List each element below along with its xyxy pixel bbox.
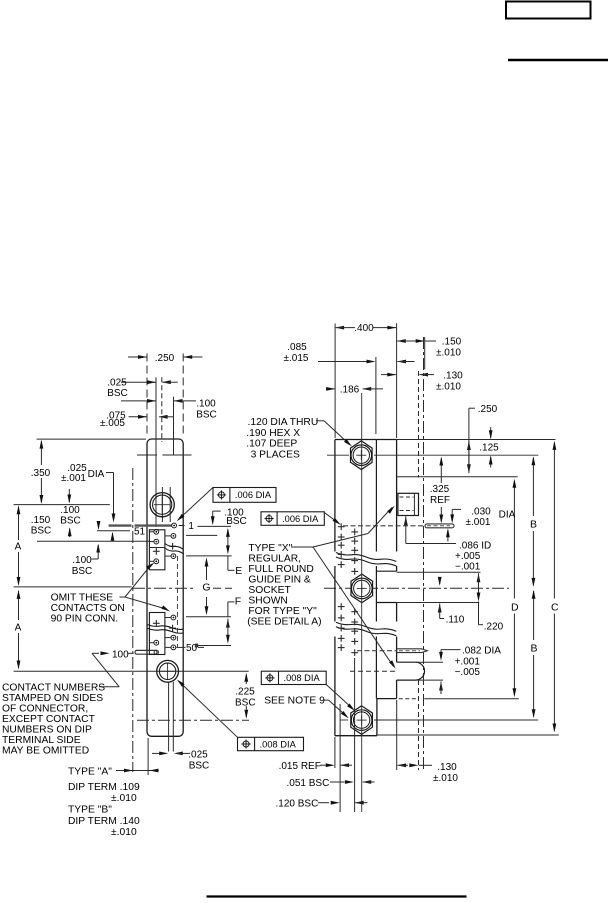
row51 extension line xyxy=(97,530,130,532)
svg-text:STAMPED ON SIDES: STAMPED ON SIDES xyxy=(2,693,103,704)
connector mid centerline (dash-dot) xyxy=(133,587,509,589)
svg-text:G: G xyxy=(202,582,210,594)
LV top surface extension line xyxy=(37,438,146,440)
LV inner vertical line x173.5 top xyxy=(173,397,175,455)
RV contacts lower col1 xyxy=(338,603,345,651)
svg-text:NUMBERS ON DIP: NUMBERS ON DIP xyxy=(2,725,92,736)
svg-text:.100: .100 xyxy=(60,505,80,516)
rowF line y645.5 with pin blob xyxy=(195,644,231,648)
LV inner vertical line x156 xyxy=(155,377,157,527)
RV hex1 centerline xyxy=(327,454,538,456)
dim .130 +/-.010 bottom xyxy=(397,700,459,784)
svg-text:A: A xyxy=(15,542,22,553)
LV upper wavy break xyxy=(165,544,184,555)
FCF .008 upper leader to hex3 xyxy=(326,685,355,711)
FCF .006 right leader xyxy=(324,513,341,525)
svg-text:.150: .150 xyxy=(31,515,51,526)
RV face extension up xyxy=(396,323,398,438)
TYPE X leader to socket detail xyxy=(291,506,395,547)
svg-text:TYPE "X": TYPE "X" xyxy=(248,543,292,554)
label 50 with dashes xyxy=(177,643,205,654)
top rule line xyxy=(508,59,608,62)
RV socket bottom arrow (up) xyxy=(439,682,443,695)
TYPE A leader with arrows xyxy=(116,738,159,775)
svg-text:.400: .400 xyxy=(354,323,374,334)
svg-text:−.005: −.005 xyxy=(455,667,481,678)
svg-text:.150: .150 xyxy=(442,337,462,348)
svg-text:OF CONNECTOR,: OF CONNECTOR, xyxy=(2,704,88,715)
RV contacts upper col2 xyxy=(351,529,358,575)
svg-text:E: E xyxy=(235,565,242,577)
LV long line y671 (socket centerline) xyxy=(14,670,249,672)
RV contacts lower col2 xyxy=(351,608,358,656)
svg-text:BSC: BSC xyxy=(107,388,128,399)
svg-text:+.005: +.005 xyxy=(455,551,481,562)
LV mating face line y455 xyxy=(137,454,192,456)
dim .030 +/-.001 DIA xyxy=(446,507,516,542)
svg-text:±.001: ±.001 xyxy=(61,473,86,484)
RV hex nut 3 xyxy=(351,706,373,735)
svg-text:SHOWN: SHOWN xyxy=(248,596,287,607)
RV hex nut 1 (jack screw) xyxy=(351,441,373,470)
RV socket centerline dashed xyxy=(350,670,397,672)
svg-text:BSC: BSC xyxy=(189,761,210,772)
svg-text:B: B xyxy=(530,519,537,531)
dim C xyxy=(551,441,559,733)
RV row-1 pin hidden line xyxy=(343,525,425,527)
svg-text:DIP TERM .109: DIP TERM .109 xyxy=(68,782,140,793)
svg-text:BSC: BSC xyxy=(235,698,256,709)
hex1 line ext right y455.2 xyxy=(0,0,1,1)
bottom rule line xyxy=(207,895,467,897)
RV hidden line x418.5 xyxy=(418,371,420,770)
LV line y586.9 xyxy=(14,586,132,588)
RV bottom edge xyxy=(335,734,559,737)
dim B lower xyxy=(530,590,537,719)
LV bottom dash-dot line xyxy=(137,719,249,721)
svg-text:TERMINAL SIDE: TERMINAL SIDE xyxy=(2,735,81,746)
svg-text:100: 100 xyxy=(112,649,129,660)
TYPE A/B dip term labels xyxy=(68,767,140,839)
svg-text:.008 DIA: .008 DIA xyxy=(260,739,297,749)
dim .350 xyxy=(31,440,51,504)
RV guide pin slot (pointed) xyxy=(397,649,427,653)
svg-text:REF: REF xyxy=(430,495,450,506)
svg-text:SOCKET: SOCKET xyxy=(248,585,291,596)
svg-text:.051 BSC: .051 BSC xyxy=(287,778,330,789)
svg-text:.225: .225 xyxy=(235,687,255,698)
dim B upper xyxy=(530,456,537,587)
RV row-1 pin slot xyxy=(425,524,454,528)
dim .100 BSC left (rows) xyxy=(60,505,114,541)
dim G xyxy=(201,558,213,616)
dim F xyxy=(226,596,241,644)
RV x375.9 extension up xyxy=(375,357,377,434)
svg-text:−.001: −.001 xyxy=(455,562,481,573)
dim .220 xyxy=(477,573,504,632)
svg-text:.008 DIA: .008 DIA xyxy=(284,673,321,683)
svg-text:.006 DIA: .006 DIA xyxy=(235,490,272,500)
RV contacts upper col1 xyxy=(338,523,345,568)
OMIT leader lines xyxy=(120,563,171,612)
svg-text:.120 BSC: .120 BSC xyxy=(276,798,319,809)
FCF .008 DIA lower xyxy=(238,737,304,750)
dim .086 ID xyxy=(404,516,491,572)
dim .225 BSC xyxy=(235,673,256,719)
svg-text:BSC: BSC xyxy=(31,526,52,537)
dim .015 REF xyxy=(279,761,352,772)
svg-text:EXCEPT CONTACT: EXCEPT CONTACT xyxy=(2,714,96,725)
svg-text:FOR TYPE "Y": FOR TYPE "Y" xyxy=(248,606,317,617)
LV pin row 1 (thick) xyxy=(109,524,172,526)
rowE line y555.9 xyxy=(186,555,232,557)
LV right edge extension (dashed, above body) xyxy=(182,354,184,436)
dim .250 right with bracket xyxy=(467,404,498,473)
RV left edge xyxy=(334,440,336,736)
RV top edge xyxy=(335,439,556,441)
RV top flange step line y477 xyxy=(397,476,518,478)
LV upper contacts right column xyxy=(166,534,177,559)
svg-text:B: B xyxy=(530,643,537,655)
dim E xyxy=(226,528,242,577)
svg-text:BSC: BSC xyxy=(196,410,217,421)
svg-text:+.001: +.001 xyxy=(455,657,481,668)
LV inner verticals through mounting hole xyxy=(162,487,170,522)
LV inner dashed line x161.8 xyxy=(161,377,163,442)
RV hexline ext right xyxy=(474,454,538,456)
svg-text:±.005: ±.005 xyxy=(100,418,125,429)
svg-text:.250: .250 xyxy=(155,353,175,364)
svg-text:.130: .130 xyxy=(437,762,457,773)
dim .051 BSC xyxy=(287,778,375,789)
svg-text:.250: .250 xyxy=(478,404,498,415)
LV hidden line x177.4 xyxy=(176,556,178,648)
svg-text:±.010: ±.010 xyxy=(433,773,458,784)
svg-text:.350: .350 xyxy=(31,468,51,479)
LV body outline xyxy=(147,439,183,736)
FCF .006 DIA right xyxy=(261,512,324,526)
svg-text:±.010: ±.010 xyxy=(436,382,461,393)
svg-text:.025: .025 xyxy=(107,378,127,389)
FCF .008 lower leader to LV hole xyxy=(177,679,238,737)
svg-text:TYPE "B": TYPE "B" xyxy=(68,805,112,816)
svg-text:.186: .186 xyxy=(340,385,360,396)
dim .075 +/-.005 xyxy=(100,411,173,429)
ext lines below RV xyxy=(335,658,355,812)
dim .110 xyxy=(438,577,465,626)
note CONTACT NUMBERS... xyxy=(2,683,105,757)
RV hex nut 2 xyxy=(351,574,373,603)
dim A lower xyxy=(15,590,22,670)
dim .100 BSC upper xyxy=(121,399,217,421)
FCF .006 leader to contact 1 xyxy=(177,488,213,522)
svg-text:.082 DIA: .082 DIA xyxy=(462,646,501,657)
line y439.5 ext right is part of top edge xyxy=(0,0,1,1)
svg-text:.120 DIA THRU: .120 DIA THRU xyxy=(248,417,319,428)
LV line y504.6 xyxy=(14,504,110,506)
svg-text:BSC: BSC xyxy=(72,566,93,577)
dim .085 +/-.015 xyxy=(284,342,415,364)
label 51 xyxy=(134,527,146,538)
dim .100 BSC lower-left with bracket xyxy=(72,544,100,578)
svg-text:GUIDE PIN &: GUIDE PIN & xyxy=(248,575,310,586)
svg-text:A: A xyxy=(15,623,22,634)
RV socket top line extension xyxy=(416,662,443,680)
dim .150 +/-.010 xyxy=(397,337,462,370)
svg-text:.130: .130 xyxy=(443,371,463,382)
dim A upper xyxy=(15,505,22,586)
RV face line xyxy=(396,440,398,699)
svg-text:(SEE DETAIL A): (SEE DETAIL A) xyxy=(247,617,321,628)
dim .150 BSC xyxy=(31,489,72,537)
svg-text:C: C xyxy=(551,602,559,614)
dim .400 xyxy=(335,323,396,334)
svg-text:DIP TERM .140: DIP TERM .140 xyxy=(68,816,140,827)
svg-text:SEE NOTE 9: SEE NOTE 9 xyxy=(264,696,325,707)
note TYPE X ... (SEE DETAIL A) xyxy=(247,543,321,628)
RV notch edge lines extended xyxy=(397,572,481,602)
RV socket detail (type X) xyxy=(398,493,419,515)
svg-text:90 PIN CONN.: 90 PIN CONN. xyxy=(51,614,119,625)
svg-text:±.010: ±.010 xyxy=(111,793,137,804)
FCF .006 DIA upper-left xyxy=(213,488,276,503)
RV full-round socket xyxy=(397,662,425,680)
svg-text:.190 HEX X: .190 HEX X xyxy=(246,428,300,439)
svg-text:TYPE "A": TYPE "A" xyxy=(68,767,112,778)
svg-text:.110: .110 xyxy=(446,615,465,626)
svg-text:.030: .030 xyxy=(471,507,491,518)
dim .082 DIA +.001 -.005 xyxy=(439,646,501,679)
svg-text:BSC: BSC xyxy=(60,516,81,527)
dim .125 xyxy=(479,427,499,468)
RV lower wavy break xyxy=(336,622,396,636)
svg-text:CONTACT NUMBERS: CONTACT NUMBERS xyxy=(2,683,105,694)
dim .025 BSC xyxy=(107,378,177,400)
dim .120 BSC xyxy=(276,798,368,809)
label 1 with dash xyxy=(179,521,195,532)
RV hex center construction line (vertical) xyxy=(361,393,363,812)
TYPE X leader to round socket xyxy=(313,547,396,669)
dim .025 BSC bottom xyxy=(152,750,209,772)
svg-text:FULL ROUND: FULL ROUND xyxy=(248,564,313,575)
RV left edge extension up xyxy=(334,324,336,439)
svg-text:±.015: ±.015 xyxy=(284,353,309,364)
svg-text:REGULAR,: REGULAR, xyxy=(248,554,301,565)
LV contact 1 ring xyxy=(172,523,177,528)
row2 line extended right xyxy=(186,534,217,536)
RV bottom step xyxy=(377,698,519,700)
LV left edge extension (dashed, above body) xyxy=(146,354,148,436)
svg-text:MAY BE OMITTED: MAY BE OMITTED xyxy=(2,746,89,757)
RV upper wavy break xyxy=(336,553,396,567)
svg-text:.015 REF: .015 REF xyxy=(279,761,321,772)
svg-text:.006 DIA: .006 DIA xyxy=(282,514,319,524)
dim .130 +/-.010 top xyxy=(381,371,463,393)
row1 line extended right xyxy=(198,525,232,527)
LV lower contacts left column xyxy=(150,620,160,645)
dim .325 REF xyxy=(430,457,450,524)
dim .100 BSC bracket (rows) xyxy=(211,508,247,527)
LV upper contact box xyxy=(149,530,165,570)
note .120 DIA THRU etc xyxy=(246,417,318,460)
RV middle notch xyxy=(376,571,397,602)
svg-text:±.001: ±.001 xyxy=(466,517,491,528)
dim D xyxy=(511,479,519,698)
CONTACT NUMBERS leader zigzag xyxy=(92,651,119,686)
LV mounting hole lower xyxy=(157,660,179,682)
svg-text:.100: .100 xyxy=(72,555,92,566)
svg-text:D: D xyxy=(511,602,519,614)
LV dip terminal lines below body xyxy=(169,682,174,752)
LV lower wavy break xyxy=(148,625,184,634)
note SEE NOTE 9 xyxy=(264,696,349,719)
label 100 and its pin xyxy=(112,649,159,660)
svg-text:.085: .085 xyxy=(287,342,307,353)
svg-text:.107 DEEP: .107 DEEP xyxy=(246,439,297,450)
LV dip-terminal centerline x132.8 (dash-dot) xyxy=(132,468,134,772)
svg-text:3 PLACES: 3 PLACES xyxy=(251,449,300,460)
svg-text:F: F xyxy=(235,596,241,608)
svg-text:1: 1 xyxy=(188,521,194,532)
dim .250 (LV width) xyxy=(128,353,203,364)
rowG line y616.8 xyxy=(186,616,231,618)
svg-text:51: 51 xyxy=(134,527,146,538)
LV mounting hole upper xyxy=(150,493,174,517)
svg-text:.086 ID: .086 ID xyxy=(459,541,491,552)
RV inner wall line xyxy=(375,440,378,736)
LV lower contacts right column xyxy=(166,615,177,650)
svg-text:±.010: ±.010 xyxy=(111,827,137,838)
RV centerline x423.5 (dash-dot) xyxy=(423,337,425,772)
svg-text:OMIT THESE: OMIT THESE xyxy=(51,593,114,604)
RV hex3 centerline xyxy=(340,719,538,721)
row2 extension line y541.3 xyxy=(37,540,149,542)
svg-text:DIA: DIA xyxy=(499,510,516,521)
title block box (empty) xyxy=(506,2,591,19)
dim .186 xyxy=(326,385,383,442)
LV upper contacts left column xyxy=(150,529,160,563)
svg-text:CONTACTS ON: CONTACTS ON xyxy=(51,603,125,614)
svg-text:.025: .025 xyxy=(188,750,208,761)
svg-text:BSC: BSC xyxy=(226,516,247,527)
leader .120 DIA to hex1 xyxy=(316,421,352,447)
svg-text:.125: .125 xyxy=(479,443,499,454)
note OMIT THESE CONTACTS ON 90 PIN CONN. xyxy=(51,593,125,625)
RV guide pin hidden line xyxy=(357,650,397,652)
svg-text:.220: .220 xyxy=(484,622,504,633)
FCF .008 DIA upper xyxy=(261,671,326,684)
label .025 +/-.001 DIA with leader xyxy=(61,463,115,523)
svg-text:DIA: DIA xyxy=(88,469,105,480)
svg-text:.325: .325 xyxy=(430,484,450,495)
svg-text:±.010: ±.010 xyxy=(436,348,461,359)
svg-text:.100: .100 xyxy=(196,399,216,410)
LV lower contact box xyxy=(149,613,165,655)
